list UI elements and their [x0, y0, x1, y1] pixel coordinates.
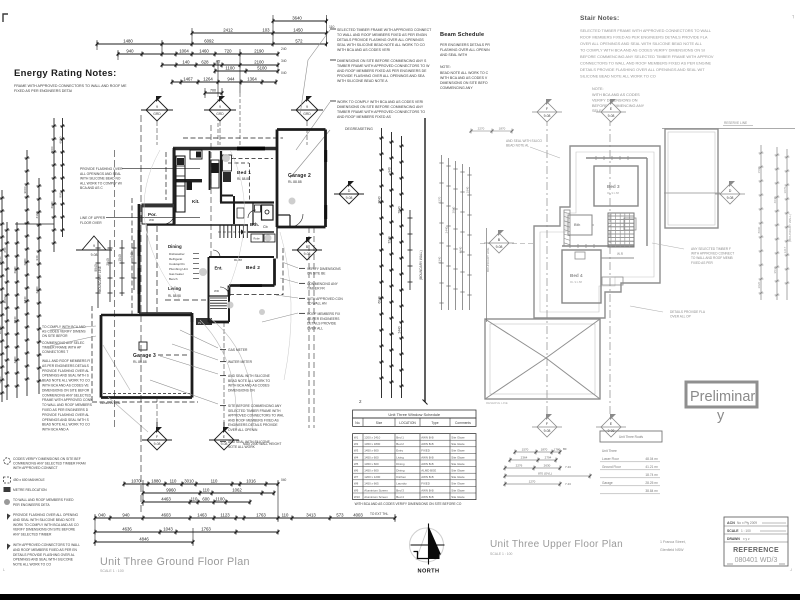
svg-text:Site Glaze: Site Glaze	[451, 462, 465, 466]
svg-text:Bed 2: Bed 2	[246, 265, 260, 271]
svg-text:LINE OF UPPER: LINE OF UPPER	[80, 216, 106, 220]
svg-text:Unit Three Window Schedule: Unit Three Window Schedule	[388, 412, 441, 417]
svg-text:2364: 2364	[521, 456, 528, 460]
svg-text:Plumbing Unit: Plumbing Unit	[169, 267, 188, 271]
svg-text:└: └	[2, 568, 5, 573]
svg-text:AWN B-B: AWN B-B	[421, 488, 433, 492]
svg-text:1070: 1070	[131, 479, 141, 484]
svg-text:CODES VERIFY DIMENSIONS ON SIT: CODES VERIFY DIMENSIONS ON SITE BEF	[13, 457, 81, 461]
svg-text:1270: 1270	[529, 480, 536, 484]
svg-text:5340: 5340	[438, 256, 442, 263]
svg-text:600: 600	[202, 497, 210, 502]
svg-text:Cb: Cb	[263, 225, 268, 229]
svg-text:Size: Size	[376, 421, 383, 425]
svg-text:SEAL WITH SILICONE BEAD NOTE A: SEAL WITH SILICONE BEAD NOTE ALL WORK TO…	[337, 43, 425, 47]
svg-text:DETAILS PROVIDE FLASHING OVER: DETAILS PROVIDE FLASHING OVER ALL OPENIN…	[337, 38, 424, 42]
svg-text:AND SEAL WITH SILICONE: AND SEAL WITH SILICONE	[228, 374, 271, 378]
svg-text:18.74 m²: 18.74 m²	[645, 473, 658, 477]
svg-text:1200 x 1200: 1200 x 1200	[364, 475, 380, 479]
svg-text:RESERVE LINE: RESERVE LINE	[486, 401, 508, 405]
svg-text:1870: 1870	[541, 448, 548, 452]
svg-text:944: 944	[227, 77, 235, 82]
svg-text:DIMENSIONS ON SITE BEFOR: DIMENSIONS ON SITE BEFOR	[42, 388, 90, 392]
svg-text:FRAME WITH APPROVED CONN: FRAME WITH APPROVED CONN	[42, 398, 93, 402]
svg-text:573: 573	[336, 513, 344, 518]
svg-text:Refrigerat: Refrigerat	[169, 257, 182, 261]
svg-text:FLOOR OVER: FLOOR OVER	[80, 221, 102, 225]
svg-text:WORK TO COMPLY WITH BCA AND AS: WORK TO COMPLY WITH BCA AND AS CODES VER…	[337, 100, 423, 104]
svg-text:Site Glaze: Site Glaze	[451, 488, 465, 492]
svg-text:Aluminium Screen: Aluminium Screen	[364, 488, 388, 492]
svg-text:4100: 4100	[0, 376, 2, 383]
svg-text:ON SITE BEFOR: ON SITE BEFOR	[42, 334, 68, 338]
svg-text:9-08: 9-08	[154, 442, 161, 446]
svg-text:4846: 4846	[139, 537, 149, 542]
svg-text:DIMENSIONS ON SITE BEFO: DIMENSIONS ON SITE BEFO	[440, 81, 488, 85]
svg-text:Glenfield NSW: Glenfield NSW	[660, 548, 684, 552]
svg-text:FIXED AS PER: FIXED AS PER	[691, 261, 713, 265]
svg-text:6092: 6092	[204, 39, 214, 44]
svg-text:6000: 6000	[58, 136, 62, 143]
svg-text:AS CODES VERIFY DIMENS: AS CODES VERIFY DIMENS	[42, 330, 86, 334]
svg-text:Bed 3: Bed 3	[396, 488, 404, 492]
svg-text:PER ENGINEERS DETAILS PR: PER ENGINEERS DETAILS PR	[440, 43, 490, 47]
svg-text:WITH APPROVED CONNECT: WITH APPROVED CONNECT	[691, 252, 734, 256]
svg-text:TIMBER FR: TIMBER FR	[307, 287, 325, 291]
svg-text:Site Glaze: Site Glaze	[451, 449, 465, 453]
svg-text:1570: 1570	[522, 448, 529, 452]
svg-text:DETAILS PROVIDE: DETAILS PROVIDE	[307, 322, 337, 326]
svg-text:AS PER ENGINEERS: AS PER ENGINEERS	[307, 317, 340, 321]
svg-text:ENGINEERS DETAILS PROVIDE: ENGINEERS DETAILS PROVIDE	[228, 423, 278, 427]
svg-text:W9: W9	[354, 488, 359, 492]
svg-text:OVER ALL OP: OVER ALL OP	[670, 314, 691, 318]
svg-text:FIXED: FIXED	[421, 482, 430, 486]
svg-text:1450 x 600: 1450 x 600	[364, 449, 379, 453]
svg-text:2630: 2630	[544, 464, 551, 468]
svg-text:Stair Notes:: Stair Notes:	[580, 15, 619, 22]
svg-text:OPENINGS AND SEAL WITH SILICON: OPENINGS AND SEAL WITH SILICONE	[13, 558, 74, 562]
svg-text:870 (OVL): 870 (OVL)	[538, 472, 552, 476]
svg-text:Bth: Bth	[574, 223, 581, 227]
svg-text:WITH BCA AND AS CODES V: WITH BCA AND AS CODES V	[440, 76, 488, 80]
svg-text:9: 9	[156, 105, 158, 109]
svg-text:Unit Three: Unit Three	[602, 449, 617, 453]
svg-text:┘: ┘	[789, 568, 793, 573]
svg-text:TIMBER FRAME WITH AP: TIMBER FRAME WITH AP	[42, 346, 82, 350]
svg-text:BOUNDARY LINE: BOUNDARY LINE	[486, 248, 490, 272]
svg-text:4000: 4000	[3, 296, 7, 303]
svg-text:2040: 2040	[23, 258, 27, 265]
svg-text:W7: W7	[354, 475, 359, 479]
svg-text:ON SITE BE: ON SITE BE	[307, 272, 326, 276]
svg-text:41.21 m²: 41.21 m²	[645, 465, 658, 469]
svg-text:WORK TO COMPLY WITH BCA AND AS: WORK TO COMPLY WITH BCA AND AS CO	[13, 523, 79, 527]
svg-text:1264: 1264	[203, 77, 213, 82]
svg-text:4603: 4603	[161, 513, 171, 518]
svg-text:AWN B-B: AWN B-B	[421, 455, 433, 459]
svg-text:RESERVE LINE: RESERVE LINE	[100, 401, 120, 405]
svg-text:10440: 10440	[0, 325, 2, 334]
svg-text:628: 628	[201, 60, 209, 65]
svg-text:Site Glaze: Site Glaze	[451, 495, 465, 499]
svg-text:NORTH: NORTH	[418, 569, 440, 575]
svg-text:2270: 2270	[478, 127, 485, 131]
svg-text:6040: 6040	[0, 256, 2, 263]
svg-text:AND ROOF MEMBERS FIXED AS PER: AND ROOF MEMBERS FIXED AS PER EN	[13, 548, 78, 552]
svg-text:3413: 3413	[306, 513, 316, 518]
svg-text:DIMENSIONS ON SITE BEFORE COMM: DIMENSIONS ON SITE BEFORE COMMENCING ANY…	[337, 59, 427, 63]
svg-text:AND SEAL WITH SILICO: AND SEAL WITH SILICO	[506, 139, 543, 143]
svg-text:DETAILS PROVIDE FLA: DETAILS PROVIDE FLA	[670, 310, 706, 314]
svg-text:110: 110	[211, 479, 218, 484]
svg-text:GAS METER: GAS METER	[228, 348, 248, 352]
svg-text:COMMENCING ANY: COMMENCING ANY	[307, 282, 339, 286]
svg-text:340: 340	[281, 59, 287, 63]
svg-text:COMMENCING ANY SELECTED TIMBER: COMMENCING ANY SELECTED TIMBER FRAM	[13, 462, 86, 466]
svg-text:1100: 1100	[225, 66, 235, 71]
svg-text:AS PER ENGINEERS DETAILS: AS PER ENGINEERS DETAILS	[42, 364, 90, 368]
svg-text:WITH BCA AND AS CODES: WITH BCA AND AS CODES	[592, 93, 640, 97]
svg-text:AWN B-B: AWN B-B	[421, 495, 433, 499]
svg-text:GRD: GRD	[153, 112, 161, 116]
svg-text:1460: 1460	[199, 49, 209, 54]
svg-text:BEAD NOTE ALL WORK TO C: BEAD NOTE ALL WORK TO C	[440, 71, 489, 75]
svg-text:MAX 2000 WALL HEIGHT: MAX 2000 WALL HEIGHT	[243, 442, 281, 446]
svg-text:Dining: Dining	[396, 469, 405, 473]
svg-text:9-08: 9-08	[304, 252, 311, 256]
svg-text:SITE BEFORE COMMENCING ANY: SITE BEFORE COMMENCING ANY	[228, 404, 282, 408]
svg-text:Lower Floor: Lower Floor	[602, 457, 620, 461]
svg-text:140: 140	[182, 60, 190, 65]
svg-text:ANY SELECTED TIMBER F: ANY SELECTED TIMBER F	[691, 247, 731, 251]
svg-text:2020: 2020	[757, 281, 761, 288]
svg-text:Energy Rating Notes:: Energy Rating Notes:	[14, 68, 117, 79]
svg-text:1780: 1780	[554, 448, 561, 452]
svg-text:GRD: GRD	[303, 112, 311, 116]
svg-text:FLASHING OVER ALL OPENIN: FLASHING OVER ALL OPENIN	[440, 48, 490, 52]
svg-text:Bed 4: Bed 4	[570, 273, 583, 278]
svg-text:D: D	[729, 189, 732, 193]
svg-text:9-08: 9-08	[496, 245, 503, 249]
svg-text:2340: 2340	[106, 258, 110, 266]
svg-text:2270: 2270	[438, 196, 442, 203]
svg-text:Bed 3: Bed 3	[607, 184, 620, 189]
svg-text:2040: 2040	[397, 206, 401, 213]
svg-text:Bed 2: Bed 2	[396, 442, 404, 446]
svg-text:2440: 2440	[23, 296, 27, 303]
svg-text:6040: 6040	[377, 296, 381, 303]
svg-text:TO WALL AND ROOF MEMBERS FIXED: TO WALL AND ROOF MEMBERS FIXED	[13, 498, 74, 502]
svg-text:Dining: Dining	[396, 462, 405, 466]
svg-text:APPROVED CONNECTORS TO WAL: APPROVED CONNECTORS TO WAL	[228, 414, 284, 418]
svg-text:TIMBER FRAME WITH APPROVED CON: TIMBER FRAME WITH APPROVED CONNECTORS TO	[337, 110, 425, 114]
svg-text:240: 240	[281, 47, 287, 51]
svg-text:SCALE 1 : 100: SCALE 1 : 100	[100, 569, 124, 573]
svg-text:9-08: 9-08	[727, 196, 734, 200]
svg-text:OVER ALL: OVER ALL	[307, 326, 323, 330]
svg-text:D: D	[348, 189, 351, 193]
svg-text:PROVIDE FLASHING OVER AL: PROVIDE FLASHING OVER AL	[42, 413, 89, 417]
svg-text:1 : 100: 1 : 100	[741, 529, 751, 533]
svg-text:Dining: Dining	[168, 244, 182, 249]
svg-text:WITH APPROVED CON: WITH APPROVED CON	[307, 297, 343, 301]
svg-text:BCA AND AS C: BCA AND AS C	[80, 186, 103, 190]
svg-text:2412: 2412	[223, 28, 233, 33]
svg-text:110: 110	[282, 513, 289, 518]
svg-text:ALL OPENINGS AND SEAL: ALL OPENINGS AND SEAL	[80, 172, 121, 176]
svg-text:TIMBER FRAME WITH APPROVED CON: TIMBER FRAME WITH APPROVED CONNECTORS TO…	[337, 64, 430, 68]
svg-text:OPENINGS AND SEAL WITH S: OPENINGS AND SEAL WITH S	[42, 374, 90, 378]
svg-text:BEAD NOTE AL: BEAD NOTE AL	[506, 144, 529, 148]
svg-text:2794: 2794	[545, 456, 552, 460]
svg-text:Bth.: Bth.	[250, 222, 259, 227]
svg-text:Entry: Entry	[396, 449, 403, 453]
svg-text:SCALE: SCALE	[727, 529, 739, 533]
svg-text:PROVIDE FLASHING OVER: PROVIDE FLASHING OVER	[80, 167, 123, 171]
svg-text:1500: 1500	[757, 166, 761, 173]
svg-text:VERIFY DIMENSIONS ON SITE BEFO: VERIFY DIMENSIONS ON SITE BEFORE	[13, 528, 76, 532]
svg-text:CONNECTORS T: CONNECTORS T	[42, 350, 68, 354]
svg-text:WITH SILICONE BEAD NO: WITH SILICONE BEAD NO	[80, 177, 121, 181]
svg-text:Cooktop/Ov: Cooktop/Ov	[169, 262, 185, 266]
svg-text:PROVIDE FLASHING OVER AL: PROVIDE FLASHING OVER AL	[42, 369, 89, 373]
svg-text:Ground Floor: Ground Floor	[602, 465, 622, 469]
svg-text:1467: 1467	[183, 77, 193, 82]
svg-text:Unit Three Roofs: Unit Three Roofs	[619, 435, 643, 439]
svg-text:Preliminar: Preliminar	[690, 389, 755, 405]
svg-text:3000: 3000	[50, 146, 54, 153]
svg-text:Site Glaze: Site Glaze	[451, 455, 465, 459]
svg-text:890: 890	[58, 192, 62, 197]
svg-text:TO COMPLY WITH BCA AND AS CODE: TO COMPLY WITH BCA AND AS CODES VERIFY D…	[580, 48, 705, 53]
svg-text:2440: 2440	[397, 326, 401, 333]
svg-text:9000: 9000	[23, 186, 27, 193]
svg-text:Site Glaze: Site Glaze	[451, 482, 465, 486]
svg-text:450 x 600 MANHOLE: 450 x 600 MANHOLE	[13, 478, 46, 482]
svg-text:7.43: 7.43	[565, 482, 571, 486]
svg-text:9-08: 9-08	[91, 253, 98, 257]
svg-text:AWN B-B: AWN B-B	[421, 442, 433, 446]
svg-text:BEAD NOTE ALL WORK TO CO: BEAD NOTE ALL WORK TO CO	[42, 379, 90, 383]
svg-text:9960: 9960	[166, 488, 176, 493]
svg-text:RL 91.88: RL 91.88	[570, 280, 582, 284]
svg-text:Bench: Bench	[169, 277, 178, 281]
svg-text:Unit Three Upper Floor Plan: Unit Three Upper Floor Plan	[490, 539, 623, 550]
svg-text:ALMD BGE: ALMD BGE	[421, 469, 436, 473]
svg-text:2640: 2640	[50, 201, 54, 208]
svg-text:1217: 1217	[783, 246, 787, 253]
svg-text:AWN B-B: AWN B-B	[421, 462, 433, 466]
svg-text:040: 040	[281, 478, 287, 482]
svg-text:DEGREASETING: DEGREASETING	[345, 127, 373, 131]
svg-text:FRAME WITH APPROVED CONNECTORS: FRAME WITH APPROVED CONNECTORS TO WALL A…	[14, 84, 127, 88]
svg-text:1364: 1364	[247, 77, 257, 82]
svg-text:COMMENCING ANY SELECTED: COMMENCING ANY SELECTED	[42, 393, 92, 397]
svg-text:SELECTED TIMBER FRAME WITH APP: SELECTED TIMBER FRAME WITH APPROVED CONN…	[580, 28, 712, 33]
svg-text:TO EXT THL: TO EXT THL	[370, 512, 388, 516]
svg-text:7.43: 7.43	[565, 465, 571, 469]
svg-text:110: 110	[170, 479, 177, 484]
svg-text:W.R: W.R	[617, 252, 624, 256]
svg-text:Beam Schedule: Beam Schedule	[440, 32, 484, 38]
svg-text:AWN B-B: AWN B-B	[421, 475, 433, 479]
svg-text:87: 87	[216, 60, 221, 65]
svg-text:TO WALL AND ROOF MEMBERS FIXED: TO WALL AND ROOF MEMBERS FIXED AS PER EN…	[337, 33, 427, 37]
svg-text:NOTE ALL WORK TO CO: NOTE ALL WORK TO CO	[13, 563, 51, 567]
svg-text:PER ENGINEERS DETA: PER ENGINEERS DETA	[13, 503, 50, 507]
svg-text:LOCATION: LOCATION	[399, 421, 416, 425]
svg-text:Aluminium Screen: Aluminium Screen	[364, 495, 388, 499]
svg-text:ACN: ACN	[727, 521, 735, 525]
svg-text:WITH BCA AND AS CODES VERI: WITH BCA AND AS CODES VERI	[337, 48, 390, 52]
svg-text:940: 940	[35, 255, 39, 260]
svg-text:SELECTED TIMBER FRAME WITH APP: SELECTED TIMBER FRAME WITH APPROVED CONN…	[337, 28, 432, 32]
svg-text:WITH BCA AND AS CODES VERIFY D: WITH BCA AND AS CODES VERIFY DIMENSIONS …	[355, 502, 462, 506]
svg-text:RL 88.88: RL 88.88	[168, 294, 181, 298]
svg-text:38.84 m²: 38.84 m²	[645, 489, 658, 493]
svg-text:RESERVE LINE: RESERVE LINE	[724, 121, 747, 125]
svg-text:080401 WD/3: 080401 WD/3	[735, 557, 778, 564]
svg-text:4636: 4636	[122, 527, 132, 532]
svg-text:WITH SILICONE BEAD NOTE A: WITH SILICONE BEAD NOTE A	[337, 79, 388, 83]
svg-text:AND ROOF MEMBERS FIXED AS PER: AND ROOF MEMBERS FIXED AS PER ENGINEERS …	[337, 69, 427, 73]
svg-text:Garage: Garage	[602, 481, 613, 485]
svg-text:Living: Living	[168, 286, 181, 291]
svg-text:RL 91.88: RL 91.88	[607, 191, 619, 195]
svg-text:9-08: 9-08	[221, 442, 228, 446]
svg-text:2190: 2190	[254, 49, 264, 54]
svg-text:Living: Living	[396, 455, 404, 459]
svg-text:Site Glaze: Site Glaze	[451, 469, 465, 473]
svg-text:9-08: 9-08	[544, 429, 551, 433]
svg-text:METRE RELOCATION: METRE RELOCATION	[13, 488, 47, 492]
svg-text:2276: 2276	[516, 464, 523, 468]
svg-text:DRAWN: DRAWN	[727, 537, 740, 541]
svg-text:Bed 1: Bed 1	[396, 436, 404, 440]
svg-text:Garage 3: Garage 3	[133, 353, 156, 359]
svg-text:Type: Type	[431, 421, 438, 425]
svg-text:9: 9	[306, 105, 308, 109]
svg-text:2640: 2640	[13, 266, 17, 273]
svg-text:Dishwasher: Dishwasher	[169, 252, 185, 256]
svg-text:TO WALL AN: TO WALL AN	[307, 302, 327, 306]
svg-text:1450 x 600: 1450 x 600	[364, 455, 379, 459]
svg-text:W1: W1	[354, 436, 359, 440]
svg-text:W3: W3	[354, 449, 359, 453]
svg-text:1940: 1940	[466, 186, 470, 193]
svg-text:RL 88.88: RL 88.88	[288, 180, 302, 184]
svg-text:572: 572	[295, 39, 303, 44]
svg-text:103: 103	[262, 28, 270, 33]
svg-text:ANY SELECTED TIMBER: ANY SELECTED TIMBER	[13, 533, 52, 537]
svg-text:FIXED AS PER ENGINEERS D: FIXED AS PER ENGINEERS D	[42, 408, 89, 412]
svg-text:DETAILS PROVIDE FLASHING OVER: DETAILS PROVIDE FLASHING OVER AL	[13, 553, 75, 557]
svg-text:DIMENSIONS ON: DIMENSIONS ON	[228, 388, 255, 392]
svg-text:OVER ALL OPENINGS AND SEAL WIT: OVER ALL OPENINGS AND SEAL WITH SILICONE…	[580, 41, 703, 46]
svg-text:4003: 4003	[353, 513, 363, 518]
svg-text:Comments: Comments	[455, 421, 471, 425]
svg-text:5100: 5100	[257, 66, 267, 71]
svg-text:1540: 1540	[118, 254, 122, 262]
svg-text:3010: 3010	[184, 479, 194, 484]
svg-text:1763: 1763	[256, 513, 266, 518]
svg-text:FIXED AS PER ENGINEERS DETAI: FIXED AS PER ENGINEERS DETAI	[14, 89, 72, 93]
svg-text:BF: BF	[563, 447, 567, 451]
svg-text:WATER METER: WATER METER	[228, 360, 253, 364]
svg-text:(BOUNDARY WALL): (BOUNDARY WALL)	[788, 214, 792, 242]
svg-text:BEAD NOTE ALL WORK TO CO: BEAD NOTE ALL WORK TO CO	[42, 423, 90, 427]
svg-text:1463: 1463	[197, 513, 207, 518]
svg-text:ROOF MEMBERS FIX: ROOF MEMBERS FIX	[307, 312, 341, 316]
svg-text:CONNECTORS TO WALL AND ROOF ME: CONNECTORS TO WALL AND ROOF MEMBERS FIXE…	[580, 61, 712, 66]
svg-text:110: 110	[191, 497, 198, 502]
svg-text:4463: 4463	[161, 497, 171, 502]
svg-text:WD: WD	[214, 289, 220, 293]
svg-text:4640: 4640	[459, 246, 463, 253]
svg-text:1 Franca Street,: 1 Franca Street,	[660, 540, 686, 544]
svg-text:940: 940	[387, 167, 391, 173]
svg-text:9: 9	[93, 244, 95, 248]
svg-text:AND ROOF MEMBERS FIXED AS: AND ROOF MEMBERS FIXED AS	[228, 418, 280, 422]
svg-text:NOTE:: NOTE:	[440, 65, 451, 69]
svg-text:1200 x 2410: 1200 x 2410	[364, 436, 380, 440]
svg-text:28.25 m²: 28.25 m²	[645, 481, 658, 485]
svg-text:SCALE 1 : 100: SCALE 1 : 100	[490, 552, 513, 556]
svg-text:COMMENCING ANY: COMMENCING ANY	[440, 86, 473, 90]
svg-text:BOUNDARY LINE: BOUNDARY LINE	[98, 266, 102, 292]
svg-text:2640: 2640	[377, 196, 381, 203]
svg-text:SILICONE BEAD NOTE ALL WORK TO: SILICONE BEAD NOTE ALL WORK TO CO	[580, 74, 656, 79]
svg-text:1450: 1450	[293, 28, 303, 33]
svg-text:PROVIDE FLASHING OVER ALL OPEN: PROVIDE FLASHING OVER ALL OPENING	[13, 513, 79, 517]
svg-text:1450 x 600: 1450 x 600	[364, 469, 379, 473]
svg-text:9: 9	[219, 105, 221, 109]
svg-text:(BOUNDARY WALL): (BOUNDARY WALL)	[419, 250, 423, 280]
svg-text:WD: WD	[149, 218, 155, 222]
svg-text:TO WALL AND ROOF MEMB: TO WALL AND ROOF MEMB	[691, 256, 733, 260]
svg-text:ALL WORK TO COMPLY WI: ALL WORK TO COMPLY WI	[80, 181, 122, 185]
svg-text:WITH BCA AND AS CODES VE: WITH BCA AND AS CODES VE	[42, 384, 90, 388]
svg-text:9-08: 9-08	[346, 196, 353, 200]
svg-text:Kitchen: Kitchen	[396, 475, 406, 479]
svg-text:3640: 3640	[292, 16, 302, 21]
svg-text:ROOF MEMBERS FIXED AS PER ENGI: ROOF MEMBERS FIXED AS PER ENGINEERS DETA…	[580, 35, 708, 40]
svg-text:1123: 1123	[220, 513, 230, 518]
svg-text:Robe: Robe	[254, 237, 261, 241]
svg-text:Bed 4: Bed 4	[396, 495, 404, 499]
svg-text:040: 040	[281, 71, 287, 75]
svg-text:REFERENCE: REFERENCE	[733, 547, 779, 554]
svg-text:1480: 1480	[123, 39, 133, 44]
svg-text:3070: 3070	[783, 186, 787, 193]
svg-text:9-08: 9-08	[608, 114, 615, 118]
svg-text:TO COMPLY WITH BCA AND: TO COMPLY WITH BCA AND	[42, 325, 86, 329]
svg-text:1870: 1870	[499, 127, 506, 131]
svg-text:Laundry: Laundry	[396, 482, 407, 486]
svg-text:WITH BCA AND A: WITH BCA AND A	[42, 428, 69, 432]
svg-text:DETAILS PROVIDE FLASHING OVER: DETAILS PROVIDE FLASHING OVER ALL OPENIN…	[580, 67, 705, 72]
svg-text:Site Glaze: Site Glaze	[451, 442, 465, 446]
svg-text:4040: 4040	[773, 196, 777, 203]
svg-text:1004: 1004	[179, 49, 189, 54]
svg-text:1016: 1016	[246, 479, 256, 484]
svg-text:1062: 1062	[232, 488, 242, 493]
svg-text:RL 88.88: RL 88.88	[237, 177, 250, 181]
svg-text:040: 040	[98, 513, 106, 518]
svg-text:Gas heater: Gas heater	[169, 272, 184, 276]
svg-text:WITH APPROVED CONNECTORS TO WA: WITH APPROVED CONNECTORS TO WALL	[13, 543, 80, 547]
